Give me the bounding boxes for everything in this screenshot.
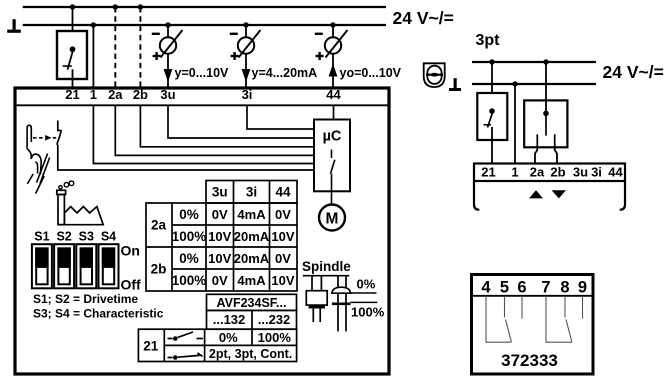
- DIP switch S2: [54, 244, 74, 288]
- svg-text:100%: 100%: [172, 229, 207, 244]
- wire 24V rail right top: [472, 61, 596, 63]
- svg-text:Off: Off: [121, 277, 142, 293]
- svg-text:10V: 10V: [271, 229, 294, 244]
- svg-text:20mA: 20mA: [234, 251, 270, 266]
- svg-text:4: 4: [481, 279, 491, 297]
- actuator main box outline: [15, 88, 389, 374]
- relay table 21: [138, 329, 296, 361]
- svg-text:2pt, 3pt, Cont.: 2pt, 3pt, Cont.: [209, 347, 292, 361]
- wire 3u to uC: [168, 105, 314, 138]
- factory icon (characteristic): [57, 181, 103, 225]
- svg-text:0V: 0V: [275, 207, 291, 222]
- svg-text:S3: S3: [79, 230, 94, 244]
- switch open symbol: [168, 332, 204, 341]
- wire 2a to uC: [115, 105, 314, 155]
- svg-text:44: 44: [326, 87, 341, 102]
- svg-text:S2: S2: [56, 230, 71, 244]
- svg-text:21: 21: [65, 87, 79, 102]
- svg-text:2b: 2b: [133, 87, 148, 102]
- DIP switch S3: [76, 244, 96, 288]
- svg-text:100%: 100%: [258, 330, 292, 345]
- signal table grid: [146, 181, 297, 292]
- svg-text:0V: 0V: [275, 251, 291, 266]
- table row labels: [151, 207, 207, 288]
- terminal strip right: [474, 164, 625, 182]
- connector box 372333: [472, 275, 594, 375]
- wire ground rail: [23, 24, 386, 26]
- svg-text:100%: 100%: [351, 305, 385, 320]
- svg-text:44: 44: [275, 185, 291, 200]
- type variants row: [207, 310, 297, 329]
- DIP switch S1: [32, 244, 52, 288]
- svg-text:µC: µC: [323, 129, 342, 145]
- svg-text:2b: 2b: [151, 262, 167, 277]
- junction dots right: [489, 59, 548, 86]
- wire 3i to uC: [247, 105, 314, 129]
- svg-text:3i: 3i: [242, 87, 253, 102]
- svg-text:0%: 0%: [179, 251, 199, 266]
- svg-text:S3; S4 = Characteristic: S3; S4 = Characteristic: [33, 307, 164, 321]
- switch closed symbol: [168, 353, 203, 360]
- svg-text:24 V~/=: 24 V~/=: [603, 62, 664, 82]
- svg-text:Spindle: Spindle: [302, 259, 351, 274]
- svg-text:0V: 0V: [212, 273, 228, 288]
- svg-text:3u: 3u: [212, 185, 228, 200]
- relay contact 4-5-6: [486, 296, 522, 342]
- actuator outline right partial: [474, 181, 479, 210]
- wire from top rail to thermal box: [72, 7, 74, 31]
- op-amp uC box: [314, 120, 350, 192]
- svg-text:4mA: 4mA: [237, 207, 266, 222]
- svg-text:2b: 2b: [550, 165, 565, 180]
- svg-text:M: M: [326, 210, 339, 227]
- svg-text:3u: 3u: [160, 87, 175, 102]
- DIP switch S4: [99, 244, 119, 288]
- spindle diagram: [303, 276, 351, 332]
- svg-text:2a: 2a: [530, 165, 545, 180]
- svg-text:3u: 3u: [573, 165, 588, 180]
- svg-text:10V: 10V: [208, 251, 231, 266]
- svg-text:5: 5: [500, 279, 509, 297]
- svg-text:2a: 2a: [151, 218, 167, 233]
- svg-text:0%: 0%: [179, 207, 199, 222]
- changeover switch box right: [524, 100, 567, 163]
- svg-text:AVF234SF...: AVF234SF...: [217, 296, 287, 310]
- wire terminal 1 from ground rail: [92, 25, 94, 87]
- svg-text:0%: 0%: [219, 330, 238, 345]
- pin separator line: [472, 295, 594, 297]
- svg-text:21: 21: [481, 165, 495, 180]
- svg-text:3pt: 3pt: [476, 32, 501, 49]
- dashed actuation arrow: [33, 137, 45, 139]
- arrow up: [529, 190, 543, 198]
- wire dashed 2b: [139, 7, 141, 87]
- wire ground rail right: [472, 83, 596, 85]
- svg-text:4mA: 4mA: [237, 273, 266, 288]
- svg-text:S1: S1: [34, 230, 49, 244]
- ground symbol right: [449, 78, 461, 91]
- arrow down: [552, 190, 566, 198]
- thermal switch box terminal 21: [57, 31, 87, 87]
- thermal switch box right: [477, 93, 507, 164]
- meter y (0-10V): [152, 25, 183, 87]
- wire ground to terminal 1 right: [514, 84, 516, 164]
- pin numbers: [481, 279, 587, 297]
- svg-text:...132: ...132: [213, 312, 246, 327]
- svg-text:10V: 10V: [271, 273, 294, 288]
- svg-text:S1; S2 = Drivetime: S1; S2 = Drivetime: [33, 292, 138, 306]
- wire dashed 2a: [114, 7, 116, 87]
- svg-text:100%: 100%: [172, 273, 207, 288]
- svg-text:44: 44: [608, 165, 623, 180]
- svg-text:20mA: 20mA: [234, 229, 270, 244]
- node: junction dots on rails: [70, 4, 336, 27]
- relay contact 7-8-9: [546, 296, 583, 342]
- ground symbol left: [7, 19, 21, 33]
- svg-text:8: 8: [560, 279, 569, 297]
- meter y (4-20mA): [230, 25, 261, 87]
- meter yo (0-10V feedback): [315, 25, 348, 87]
- svg-text:3i: 3i: [246, 185, 257, 200]
- wire rail to changeover box: [545, 62, 547, 113]
- svg-text:S4: S4: [101, 230, 116, 244]
- svg-text:21: 21: [143, 339, 159, 354]
- svg-text:3i: 3i: [591, 165, 602, 180]
- svg-text:yo=0...10V: yo=0...10V: [340, 66, 402, 80]
- table header texts: [212, 185, 291, 200]
- svg-text:10V: 10V: [208, 229, 231, 244]
- svg-text:372333: 372333: [501, 351, 558, 370]
- wire 44 to uC: [333, 105, 335, 119]
- svg-text:0V: 0V: [212, 207, 228, 222]
- svg-text:...232: ...232: [258, 312, 291, 327]
- type box AVF234SF: [207, 294, 297, 310]
- terminal strip line: [15, 104, 389, 106]
- uC internal switch: [331, 150, 335, 205]
- wire 2b to uC: [140, 105, 314, 147]
- DIP switch labels S1 S2 S3 S4: [34, 230, 116, 244]
- table values: [208, 207, 295, 288]
- svg-text:0%: 0%: [357, 277, 376, 292]
- wire 24V top rail: [23, 6, 386, 8]
- wire rail to right box1: [491, 62, 493, 93]
- svg-text:1: 1: [511, 165, 518, 180]
- svg-text:7: 7: [541, 279, 550, 297]
- wire 1 to uC: [93, 105, 314, 163]
- motor M: [319, 205, 345, 231]
- terminal labels 21 1 2a 2b 3u 3i 44: [65, 87, 341, 102]
- svg-text:6: 6: [517, 279, 526, 297]
- svg-text:On: On: [121, 243, 140, 259]
- hand icon (manual): [27, 125, 50, 193]
- svg-text:y=4...20mA: y=4...20mA: [252, 66, 318, 80]
- svg-text:1: 1: [90, 87, 97, 102]
- override knob icon: [424, 63, 445, 87]
- svg-text:y=0...10V: y=0...10V: [175, 66, 230, 80]
- svg-text:2a: 2a: [108, 87, 123, 102]
- svg-text:9: 9: [578, 279, 587, 297]
- manual override switch: [57, 121, 314, 171]
- svg-text:24 V~/=: 24 V~/=: [393, 8, 454, 28]
